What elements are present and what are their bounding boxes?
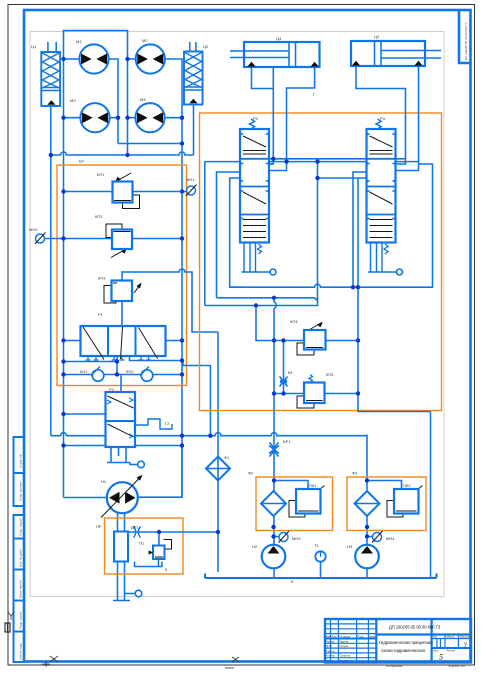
wire M3 left bbox=[64, 117, 81, 119]
tank bus bbox=[205, 574, 437, 579]
svg-text:Р1: Р1 bbox=[98, 312, 104, 317]
svg-text:Петров: Петров bbox=[340, 644, 349, 648]
wire P2 pilot left y414 bbox=[64, 413, 106, 415]
pilot valve P (regulator) bbox=[149, 540, 172, 560]
wire pump suction pair bbox=[118, 513, 125, 601]
wire M1 left bbox=[64, 58, 80, 60]
svg-text:Р2: Р2 bbox=[109, 387, 115, 392]
wire M4 right bbox=[165, 117, 182, 119]
svg-text:ПР: ПР bbox=[96, 524, 102, 529]
wire x274 to coupling bbox=[274, 298, 276, 442]
valve P2 body bbox=[106, 392, 136, 447]
cylinder C4 bbox=[351, 41, 441, 66]
orange box B (filter group) bbox=[347, 477, 426, 531]
svg-text:КО1: КО1 bbox=[80, 369, 88, 374]
variable pump H bbox=[101, 475, 143, 518]
svg-text:ПК1: ПК1 bbox=[309, 483, 317, 488]
wire bus y161.6 right bbox=[269, 161, 419, 163]
motor M3 bbox=[80, 103, 109, 132]
svg-text:Копировал: Копировал bbox=[386, 664, 403, 668]
svg-text:Ц2: Ц2 bbox=[203, 44, 209, 49]
svg-text:ДП 190205.65 00.00.000 Г3: ДП 190205.65 00.00.000 Г3 bbox=[464, 22, 468, 60]
wire bus y158.8 bbox=[269, 158, 406, 160]
wire bus y303.5 with U turn bbox=[205, 162, 318, 306]
relief valve KP5 bbox=[297, 375, 325, 409]
pump H2 bbox=[262, 545, 286, 569]
wire P2 top stub bbox=[120, 376, 122, 393]
svg-text:Ц4: Ц4 bbox=[374, 34, 380, 39]
svg-text:КП2: КП2 bbox=[95, 214, 103, 219]
wire P1 drain right y360.5 bbox=[130, 356, 183, 361]
svg-text:КП3: КП3 bbox=[98, 276, 106, 281]
svg-text:Справ. №: Справ. № bbox=[19, 454, 23, 468]
gauge MN3 bbox=[274, 531, 290, 543]
svg-text:М3: М3 bbox=[70, 98, 76, 103]
svg-text:схема гидравлическая: схема гидравлическая bbox=[381, 648, 425, 653]
svg-text:БР1: БР1 bbox=[283, 439, 291, 444]
wire P1 right y340 bbox=[166, 340, 183, 342]
wire x117 stub bbox=[116, 356, 118, 375]
svg-text:Масштаб: Масштаб bbox=[460, 635, 472, 639]
svg-text:Пров.: Пров. bbox=[326, 644, 333, 648]
wire bus y155 bbox=[51, 152, 194, 155]
corner fold marks (black) bbox=[5, 612, 239, 668]
orange box 1 bbox=[57, 165, 187, 386]
wire P1 left y340 bbox=[64, 340, 81, 342]
svg-text:Гидравлическая прицепная: Гидравлическая прицепная bbox=[379, 640, 432, 645]
check valve KO1 bbox=[91, 367, 104, 382]
wire nested left x216.5 bbox=[217, 172, 241, 298]
svg-text:Разраб.: Разраб. bbox=[326, 639, 336, 643]
orange box A (filter group) bbox=[256, 477, 333, 531]
svg-text:ДП 190205.65 00.00.000 Г3: ДП 190205.65 00.00.000 Г3 bbox=[389, 625, 441, 630]
svg-text:Н.контр.: Н.контр. bbox=[326, 654, 336, 658]
wire nested left x204.8 bbox=[204, 162, 206, 306]
wire bus y435.7 right part with hops bbox=[135, 433, 367, 436]
orange box 2 bbox=[200, 113, 442, 411]
top-right document cell bbox=[459, 10, 471, 63]
P2 pilot staircase G2 bbox=[135, 419, 172, 429]
wire KP5 line y393.5 bbox=[274, 393, 304, 395]
gauge MN1 bbox=[186, 185, 197, 197]
svg-text:Ц1: Ц1 bbox=[31, 44, 37, 49]
check valve V1 bbox=[280, 377, 288, 387]
wire left vertical x63.5 bbox=[63, 31, 65, 498]
wire x127.5 motors feed bbox=[127, 59, 129, 155]
svg-text:МН2: МН2 bbox=[29, 227, 38, 232]
wire bus y296.5 bbox=[217, 298, 318, 301]
motor M2 bbox=[136, 44, 165, 73]
wire regulator line y532 bbox=[128, 531, 218, 533]
wire stack1 right jog stubs bbox=[269, 163, 273, 165]
wire y143.5 link bbox=[118, 143, 182, 145]
wire M3 right bbox=[110, 117, 118, 119]
svg-text:Лит.: Лит. bbox=[433, 635, 438, 639]
svg-text:КП5: КП5 bbox=[326, 372, 334, 377]
thermometer T1 bbox=[315, 551, 325, 578]
relief valve KP3 bbox=[104, 281, 142, 304]
svg-text:Р3: Р3 bbox=[253, 116, 259, 121]
svg-text:Н3: Н3 bbox=[347, 544, 353, 549]
stroking cylinder rect bbox=[114, 532, 128, 562]
gauge MN2 bbox=[35, 233, 46, 245]
relief valve KP1 bbox=[113, 173, 140, 209]
wire C4 left port down bbox=[356, 66, 406, 164]
directional valve P1 body bbox=[81, 326, 166, 360]
wire C3 left port down bbox=[252, 67, 274, 89]
title block (GOST stamp) bbox=[325, 619, 471, 668]
wire KP3 top link y272 bbox=[122, 269, 218, 332]
orange box PR (pump regulator) bbox=[105, 518, 184, 574]
wire M4 left bbox=[128, 117, 136, 119]
cylinder C3 bbox=[230, 42, 320, 67]
wire branch to PK1 bbox=[274, 481, 308, 490]
wire x256 feed bbox=[256, 306, 304, 341]
svg-text:М4: М4 bbox=[140, 97, 146, 102]
wire x283.5 check branch bbox=[283, 341, 285, 394]
wire branch to PK2 bbox=[367, 481, 402, 490]
wire x358 drain bbox=[318, 177, 367, 179]
brake valve stack 2 bbox=[367, 119, 403, 275]
svg-text:Масса: Масса bbox=[447, 635, 455, 639]
wire bus y161.6 left bbox=[205, 161, 240, 163]
P1 bottom port stubs bbox=[86, 356, 152, 360]
light gray content box bbox=[30, 32, 444, 597]
wire KP3 bottom stub bbox=[121, 301, 123, 326]
wire top bus y30.5 bbox=[64, 31, 128, 60]
svg-text:ПК2: ПК2 bbox=[403, 483, 411, 488]
wire M2 left bbox=[128, 58, 136, 60]
wire check valve row y374.5 bbox=[64, 374, 183, 376]
relief valve KP2 bbox=[106, 224, 132, 258]
pump H3 bbox=[355, 545, 379, 569]
wire bus to box B bbox=[366, 435, 368, 579]
svg-text:М2: М2 bbox=[142, 38, 148, 43]
wire x182 lower corner to pump bbox=[138, 446, 182, 498]
svg-text:Б: Б bbox=[291, 579, 294, 584]
svg-text:МН1: МН1 bbox=[186, 177, 195, 182]
wire nested left x229.7 bbox=[230, 178, 243, 287]
svg-text:Т1: Т1 bbox=[314, 543, 319, 548]
wire jog to x210.4 bbox=[183, 361, 210, 436]
wire KP4 line right bbox=[326, 340, 359, 342]
svg-text:Формат А4: Формат А4 bbox=[448, 664, 465, 668]
svg-text:5: 5 bbox=[439, 653, 443, 662]
P2 tank symbol bbox=[107, 447, 138, 465]
svg-text:Инв.№ подл.: Инв.№ подл. bbox=[19, 642, 23, 660]
filter F2 bbox=[261, 491, 286, 516]
relief valve KP4 bbox=[297, 322, 326, 355]
check valve KO2 bbox=[140, 367, 153, 382]
svg-text:БУ: БУ bbox=[79, 159, 85, 164]
motor M4 bbox=[135, 103, 164, 132]
wire KP2 line y238.5 bbox=[45, 238, 183, 240]
svg-text:КП1: КП1 bbox=[97, 172, 105, 177]
wire C4 right port down bbox=[397, 66, 419, 171]
wire x353 hook bbox=[353, 172, 367, 287]
svg-text:МН4: МН4 bbox=[386, 536, 395, 541]
filter F3 bbox=[355, 491, 380, 516]
svg-text:Ф3: Ф3 bbox=[352, 471, 358, 476]
svg-text:Утв.: Утв. bbox=[326, 658, 331, 662]
svg-text:КП4: КП4 bbox=[290, 319, 298, 324]
wire regulator drain staple bbox=[135, 559, 163, 567]
wire x358 long vertical bbox=[358, 178, 431, 412]
svg-text:ДР1: ДР1 bbox=[131, 525, 139, 530]
svg-text:№ докум.: № докум. bbox=[340, 636, 352, 639]
svg-text:Т.контр.: Т.контр. bbox=[326, 649, 336, 653]
svg-text:Подп. и дата: Подп. и дата bbox=[19, 611, 23, 629]
svg-text:Лист: Лист bbox=[332, 635, 338, 639]
svg-text:Иванов: Иванов bbox=[340, 639, 350, 643]
wire bus y445.5 bbox=[64, 445, 183, 447]
wire M1 right to x118 bbox=[109, 59, 118, 144]
wire x159 down bbox=[158, 532, 160, 546]
wire nested right x432.5 bbox=[419, 164, 433, 287]
svg-text:Листов: Листов bbox=[447, 649, 456, 653]
brake cylinder C2 bbox=[184, 42, 203, 105]
svg-text:В1: В1 bbox=[288, 370, 294, 375]
brake valve stack 1 bbox=[240, 119, 276, 275]
svg-text:Дата: Дата bbox=[369, 635, 375, 639]
svg-text:Р4: Р4 bbox=[380, 116, 386, 121]
svg-text:П1: П1 bbox=[139, 541, 145, 546]
svg-text:Ф2: Ф2 bbox=[248, 471, 254, 476]
wire cyl1 drain x50.8 bbox=[50, 106, 52, 436]
wire x430.5 tank return bbox=[430, 412, 432, 579]
svg-text:Н1: Н1 bbox=[101, 479, 107, 484]
wire P1 drain left y361.5 bbox=[64, 361, 118, 363]
svg-text:Подп.: Подп. bbox=[358, 635, 365, 639]
motor M1 bbox=[79, 44, 108, 73]
svg-text:Перв. примен.: Перв. примен. bbox=[19, 481, 23, 501]
wire pump H left line bbox=[64, 497, 107, 499]
restrictor DR1 bbox=[134, 527, 141, 538]
tank under pump H bbox=[113, 594, 135, 601]
svg-text:Инв. № дубл.: Инв. № дубл. bbox=[19, 548, 23, 567]
left margin stamp cells lower bbox=[14, 515, 25, 662]
svg-text:Смирнов: Смирнов bbox=[340, 654, 351, 658]
svg-text:Подп. и дата: Подп. и дата bbox=[19, 518, 23, 536]
wire x273.3 down bbox=[269, 68, 273, 165]
svg-text:М1: М1 bbox=[76, 39, 82, 44]
gauge MN4 bbox=[367, 531, 383, 543]
wire bus y435.7 left part bbox=[51, 433, 106, 436]
quick coupling BRS1 bbox=[269, 442, 279, 578]
drain circle pump H bbox=[135, 590, 142, 597]
relief valve PK1 bbox=[289, 486, 325, 518]
drain circle P2 bbox=[138, 461, 145, 468]
wire M2 right to x182 bbox=[165, 59, 182, 497]
svg-text:МН3: МН3 bbox=[292, 536, 301, 541]
wire bus y287.2 bbox=[230, 284, 433, 287]
svg-text:Изм: Изм bbox=[326, 635, 331, 639]
relief valve PK2 bbox=[387, 486, 423, 518]
svg-text:Н2: Н2 bbox=[252, 544, 258, 549]
wire cyl2 drain x193.5 bbox=[193, 105, 195, 156]
wire KP5 line right bbox=[325, 393, 359, 395]
svg-text:Ф1: Ф1 bbox=[224, 455, 230, 460]
filter F1 bbox=[206, 457, 230, 481]
wire C3 right port down bbox=[269, 67, 315, 171]
svg-text:КО2: КО2 bbox=[126, 369, 134, 374]
svg-text:Взам. инв.№: Взам. инв.№ bbox=[19, 579, 23, 598]
wire KP1 line y191.5 bbox=[64, 191, 187, 193]
filter F1 vertical line x218 bbox=[217, 332, 219, 572]
brake cylinder C1 bbox=[41, 42, 60, 106]
svg-text:Ц3: Ц3 bbox=[276, 36, 282, 41]
svg-text:Козлов: Козлов bbox=[340, 658, 349, 662]
left margin stamp cells upper bbox=[14, 437, 25, 506]
